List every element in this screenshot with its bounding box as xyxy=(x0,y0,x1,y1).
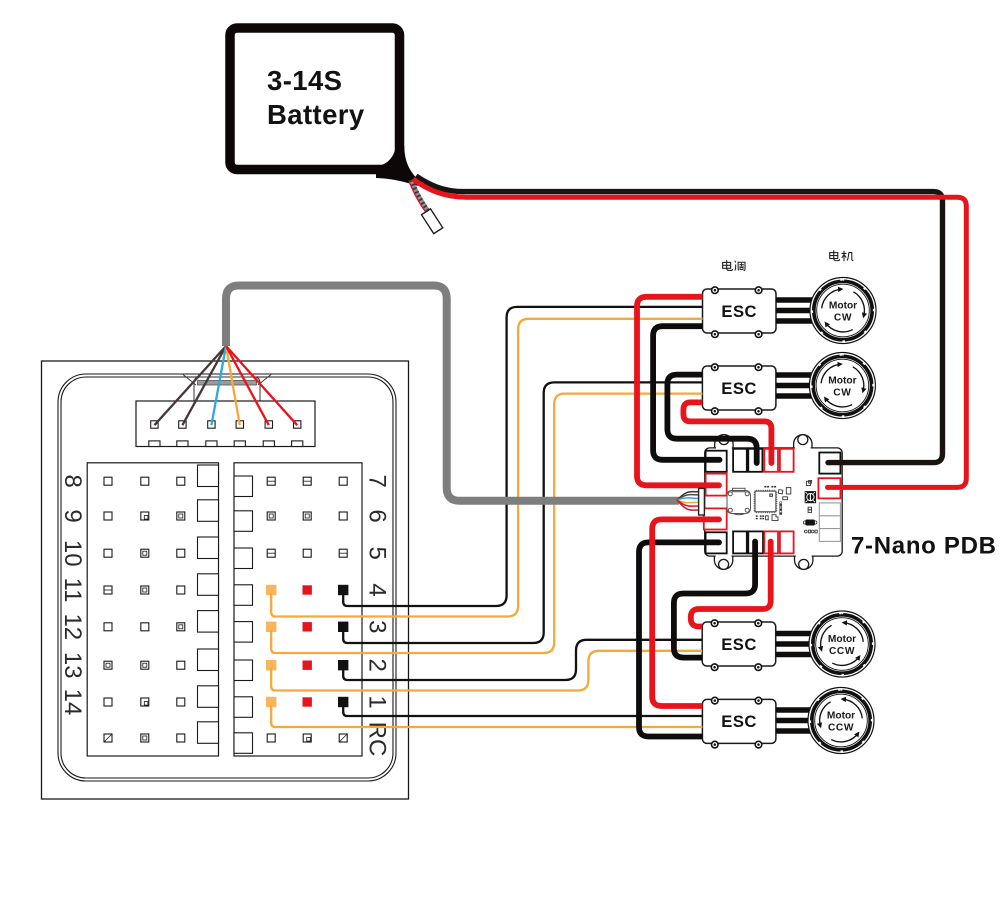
power wire ESC U2 red to PDB xyxy=(683,402,771,463)
svg-text:Motor: Motor xyxy=(827,710,855,721)
PDB top pad 2 black xyxy=(733,449,747,472)
receiver board outer outline xyxy=(42,361,409,799)
ESC U3 xyxy=(702,620,776,671)
J1 pins xyxy=(151,421,301,428)
svg-text:CW: CW xyxy=(833,387,851,398)
ESC U2 xyxy=(702,364,776,415)
power wire PDB to ESC U4 red xyxy=(652,519,719,706)
svg-text:Battery: Battery xyxy=(267,99,365,130)
PDB left red pad 2 xyxy=(704,508,727,529)
PDB bottom pad 3 black xyxy=(748,531,763,553)
right grid colored pins rows 4-1 xyxy=(266,585,276,595)
gray cable breakout wires xyxy=(677,492,699,510)
svg-text:5: 5 xyxy=(364,547,391,560)
svg-text:7: 7 xyxy=(364,475,391,488)
PDB mounting ear top-left xyxy=(715,435,733,452)
PDB component: MCU chip U1 xyxy=(755,491,776,512)
PDB mounting ear bottom-left xyxy=(714,552,732,569)
right grid open pins xyxy=(267,477,347,742)
battery balance lead xyxy=(409,180,443,234)
PDB top pad 4 red xyxy=(764,449,778,472)
motor M4 CCW xyxy=(808,688,874,754)
ESC U4 xyxy=(702,697,776,748)
PDB body xyxy=(705,448,843,556)
left grid pad column xyxy=(198,465,219,743)
svg-text:ESC: ESC xyxy=(721,379,757,398)
svg-text:3: 3 xyxy=(364,620,391,633)
svg-text:ESC: ESC xyxy=(721,712,757,731)
power wire PDB to ESC U3 red xyxy=(691,542,771,627)
battery negative wire black xyxy=(416,176,943,463)
receiver gray cable xyxy=(226,286,679,501)
PDB top pad 5 red xyxy=(780,449,794,472)
J1 bottom notches xyxy=(149,441,303,447)
motor M1 CW xyxy=(810,278,876,344)
svg-text:ESC: ESC xyxy=(721,635,757,654)
PDB right red pad xyxy=(818,478,840,498)
left grid pins xyxy=(104,477,185,742)
PDB bottom-left black pad xyxy=(706,532,727,553)
left pin grid xyxy=(87,463,218,756)
PDB right gray pad block xyxy=(819,503,840,542)
PDB mounting ear top-right xyxy=(794,435,812,452)
svg-text:6: 6 xyxy=(364,509,391,522)
signal wire CH2 black (RC2 to ESC U3) xyxy=(343,640,702,680)
power wire ESC U2 black to PDB xyxy=(667,375,756,463)
svg-text:8: 8 xyxy=(59,475,86,488)
svg-text:Motor: Motor xyxy=(828,375,856,386)
svg-text:9: 9 xyxy=(59,509,86,522)
svg-text:2: 2 xyxy=(364,659,391,672)
PDB small parts below chip xyxy=(756,515,764,519)
power wire PDB to ESC U3 black xyxy=(674,542,755,658)
PDB component: potentiometer xyxy=(805,481,816,504)
right grid pad column xyxy=(234,476,253,753)
battery positive wire red xyxy=(413,179,966,487)
svg-text:10: 10 xyxy=(59,540,86,567)
receiver board inner outline (double line) xyxy=(58,374,396,781)
signal wire CH3 orange (RC3 to ESC U2) xyxy=(271,394,702,653)
PDB top-left black pad xyxy=(706,451,727,472)
left grid pin details xyxy=(104,514,183,742)
svg-text:3-14S: 3-14S xyxy=(267,65,342,96)
power wire ESC U1 black to PDB xyxy=(653,326,719,460)
power wire ESC U1 red to PDB xyxy=(637,297,719,486)
PDB bottom pad 4 red xyxy=(764,531,778,553)
PDB component: capacitor C1 xyxy=(803,520,817,526)
svg-text:12: 12 xyxy=(59,613,86,640)
signal wire CH1 black (RC1 to ESC U4) xyxy=(343,705,702,716)
svg-text:ESC: ESC xyxy=(721,302,757,321)
svg-text:CCW: CCW xyxy=(828,722,854,733)
svg-text:4: 4 xyxy=(364,583,391,596)
right pin grid xyxy=(234,463,362,756)
signal wire CH4 black (RC4 to ESC U1) xyxy=(343,307,702,606)
PDB bottom pad 5 red xyxy=(780,531,794,553)
power wire PDB to ESC U4 black xyxy=(639,542,719,736)
svg-text:CCW: CCW xyxy=(829,646,855,657)
receiver connector shroud xyxy=(183,375,271,402)
PDB left red pad 1 xyxy=(706,474,727,496)
svg-text:13: 13 xyxy=(59,652,86,679)
PDB mounting ear bottom-right xyxy=(795,552,813,569)
signal wire CH1 orange (RC1 to ESC U4) xyxy=(271,705,702,727)
svg-text:Motor: Motor xyxy=(829,300,857,311)
motor phase wires M4 xyxy=(776,707,811,712)
svg-text:CW: CW xyxy=(834,312,852,323)
gray cable connector plug xyxy=(699,488,705,515)
svg-text:7-Nano PDB: 7-Nano PDB xyxy=(851,533,997,560)
signal wire CH4 orange (RC4 to ESC U1) xyxy=(271,319,702,617)
right grid pin details xyxy=(267,481,347,742)
svg-text:14: 14 xyxy=(59,689,86,716)
motor M3 CCW xyxy=(809,611,875,677)
motor phase wires M3 xyxy=(776,631,812,636)
svg-text:11: 11 xyxy=(59,578,86,603)
svg-text:1: 1 xyxy=(364,695,391,708)
signal wire CH2 orange (RC2 to ESC U3) xyxy=(271,651,702,691)
PDB right black pad xyxy=(819,453,840,474)
battery B1 xyxy=(230,28,420,186)
PDB mounting holes xyxy=(719,435,729,445)
PDB bottom pad 2 black xyxy=(733,531,747,553)
PDB top pad 3 black xyxy=(748,449,762,472)
PDB silkscreen dots xyxy=(804,530,817,533)
motor M2 CW xyxy=(809,353,875,419)
ESC U1 xyxy=(703,287,777,338)
balance connector xyxy=(421,209,442,234)
label dian-diao (ESC) xyxy=(723,260,733,270)
PDB tiny dual pad xyxy=(808,507,811,510)
receiver connector J1 xyxy=(136,401,315,447)
PDB small parts right of chip xyxy=(778,488,790,500)
channel labels 7-1, RC xyxy=(364,475,391,757)
PDB board 7-Nano xyxy=(704,435,842,570)
signal wire CH3 black (RC3 to ESC U2) xyxy=(343,382,702,643)
receiver cable fan wires xyxy=(154,346,297,425)
PDB small capacitors above chip xyxy=(764,486,776,488)
motor phase wires M2 xyxy=(776,372,812,377)
label dian-ji (motor) xyxy=(830,250,840,260)
motor phase wires M1 xyxy=(776,297,813,302)
row labels 8-14 xyxy=(59,475,86,716)
PDB component: XT30 connector xyxy=(727,488,751,514)
svg-text:Motor: Motor xyxy=(828,634,856,645)
